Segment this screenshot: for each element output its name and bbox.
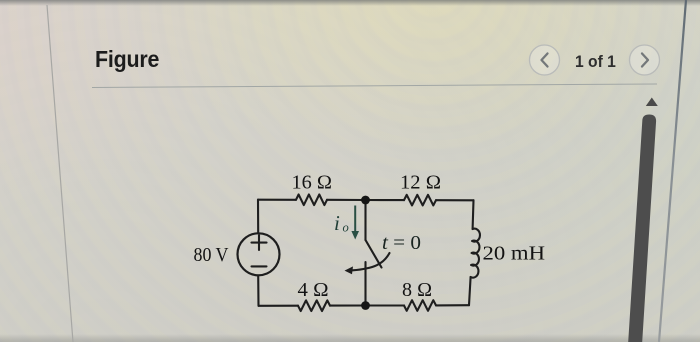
resistor R3 4 ohm: [298, 300, 330, 311]
wire top-middle segment: [327, 199, 404, 201]
wire bottom-right segment: [436, 304, 469, 306]
current arrow io: [351, 206, 359, 240]
svg-text:8 Ω: 8 Ω: [402, 279, 432, 301]
wire top-right segment: [436, 199, 474, 201]
svg-text:t = 0: t = 0: [382, 232, 421, 254]
voltage source plus sign: [252, 235, 267, 266]
next page button: [630, 45, 660, 75]
svg-text:16 Ω: 16 Ω: [292, 172, 333, 194]
wire left lower: [257, 275, 259, 305]
prev page button: [530, 45, 560, 75]
switch arrowhead: [345, 266, 354, 274]
wire right lower: [469, 277, 471, 305]
header label Figure: [95, 46, 159, 73]
voltage source minus sign: [252, 265, 267, 267]
resistor R4 8 ohm: [404, 300, 436, 311]
wire right upper: [472, 200, 475, 229]
page indicator 1 of 1: [575, 52, 616, 72]
svg-text:12 Ω: 12 Ω: [400, 172, 441, 194]
svg-text:20 mH: 20 mH: [483, 243, 546, 265]
wire left upper: [257, 200, 259, 234]
scrollbar up arrow: [646, 98, 658, 107]
node B (bottom junction): [361, 301, 370, 310]
left panel border: [47, 5, 73, 342]
resistor R2 12 ohm: [404, 195, 436, 206]
wire bottom-left segment: [259, 305, 299, 307]
resistor R1 16 ohm: [296, 195, 327, 206]
wire top-left segment: [258, 199, 296, 201]
svg-text:i: i: [334, 211, 340, 235]
svg-text:4 Ω: 4 Ω: [298, 279, 329, 301]
switch action arc: [353, 253, 390, 270]
voltage source V1 80 V: [238, 233, 280, 275]
switch blade: [366, 240, 382, 268]
middle branch upper wire: [364, 200, 366, 240]
header divider: [92, 84, 657, 88]
svg-text:o: o: [343, 221, 349, 235]
middle branch lower wire: [364, 262, 366, 306]
svg-text:80 V: 80 V: [194, 244, 229, 266]
scrollbar thumb: [628, 115, 656, 342]
inductor L1 20 mH: [471, 229, 480, 278]
node A (top junction): [361, 196, 370, 205]
wire bottom-middle segment: [330, 304, 404, 306]
